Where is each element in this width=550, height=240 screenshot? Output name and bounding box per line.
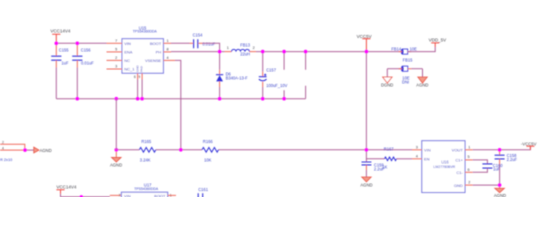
- pin 2 GND: [465, 184, 473, 186]
- svg-text:ENA: ENA: [124, 50, 133, 55]
- svg-text:EN: EN: [424, 157, 430, 162]
- svg-text:4: 4: [2, 147, 4, 151]
- ferrite bead FB14 10E: [391, 46, 417, 54]
- svg-text:3: 3: [416, 145, 418, 149]
- svg-text:6: 6: [134, 75, 136, 79]
- svg-text:2: 2: [115, 56, 117, 60]
- svg-text:C157: C157: [266, 68, 277, 73]
- svg-text:3: 3: [115, 65, 117, 69]
- svg-text:LM27760BVR: LM27760BVR: [433, 165, 455, 169]
- svg-text:1: 1: [227, 46, 229, 50]
- svg-text:7: 7: [115, 39, 117, 43]
- power VCC5V: [357, 34, 372, 52]
- svg-text:VCC14V4: VCC14V4: [50, 29, 71, 34]
- ground flag AGND left: [25, 147, 52, 153]
- resistor R166 10K: [202, 139, 219, 163]
- svg-text:R166: R166: [203, 139, 214, 144]
- pin 5 ENA: [107, 51, 123, 53]
- svg-text:2.2uF: 2.2uF: [507, 157, 518, 162]
- svg-text:5: 5: [468, 155, 470, 159]
- wire output rail: [256, 51, 401, 53]
- svg-text:1uF: 1uF: [61, 61, 69, 66]
- svg-text:2.2uF: 2.2uF: [374, 166, 385, 171]
- op IC U15 TPS54360DDA: [107, 25, 176, 98]
- svg-text:C154: C154: [193, 33, 204, 38]
- svg-text:DGND: DGND: [381, 83, 393, 88]
- capacitor C154: [190, 33, 216, 49]
- svg-text:10E: 10E: [410, 46, 418, 51]
- svg-text:PAD: PAD: [140, 65, 144, 72]
- wire 5V down branch: [365, 52, 367, 150]
- svg-text:9: 9: [138, 75, 140, 79]
- pin 8 PH: [163, 51, 171, 53]
- svg-text:C156: C156: [81, 47, 92, 52]
- pin 7 VIN: [107, 42, 123, 44]
- wire VIN top: [56, 42, 106, 44]
- pin 2 NC: [107, 59, 123, 61]
- wire divider row: [116, 149, 412, 151]
- svg-text:VCC14V4: VCC14V4: [56, 185, 77, 190]
- svg-text:3.24K: 3.24K: [140, 158, 151, 163]
- svg-text:2: 2: [253, 46, 255, 50]
- stub column (DNI cap): [283, 52, 285, 99]
- inductor FB13 22uH: [225, 42, 257, 56]
- pin 3 NC_1: [107, 68, 123, 70]
- svg-text:10K: 10K: [204, 158, 212, 163]
- pin 1 BOOT: [163, 42, 171, 44]
- svg-text:1: 1: [468, 145, 470, 149]
- svg-text:1: 1: [167, 39, 169, 43]
- power VDD_5V: [429, 38, 447, 48]
- pin 5 C1+: [465, 159, 473, 161]
- IC U16 LM2776DBVR: [412, 141, 473, 193]
- wire GND U16: [473, 184, 500, 186]
- stub column (DNI cap): [305, 52, 307, 98]
- svg-text:VDD_5V: VDD_5V: [429, 38, 447, 43]
- power VCC14V4 bottom: [56, 185, 77, 197]
- svg-text:FB13: FB13: [240, 42, 251, 47]
- svg-text:GND: GND: [454, 183, 463, 188]
- capacitor C156: [72, 43, 94, 98]
- resistor pack R 2x10 (edge): [0, 141, 25, 163]
- wire PH: [171, 51, 225, 53]
- svg-text:TPS54360DDA: TPS54360DDA: [133, 30, 158, 34]
- ground AGND: [416, 69, 428, 88]
- pin 6 GND pin 9 PAD: [138, 73, 143, 79]
- svg-text:8: 8: [167, 47, 169, 51]
- svg-text:VSENSE: VSENSE: [145, 58, 162, 63]
- wire FB14 to VDD_5V: [408, 47, 436, 52]
- ground AGND under U16: [494, 185, 506, 198]
- svg-text:AGND: AGND: [360, 182, 372, 187]
- svg-text:R167: R167: [384, 147, 395, 152]
- wire VSENSE down: [175, 60, 181, 149]
- svg-text:AGND: AGND: [110, 163, 122, 168]
- svg-text:DNI: DNI: [402, 80, 409, 85]
- power VCC14V4: [50, 29, 71, 44]
- svg-text:AGND: AGND: [40, 148, 52, 153]
- wire VOUT rail: [473, 147, 531, 150]
- IC U17 TPS54360DDA (partial): [119, 182, 177, 202]
- capacitor C158 2.2uF: [495, 150, 518, 185]
- svg-text:AGND: AGND: [416, 83, 428, 88]
- svg-text:NC_1: NC_1: [124, 67, 135, 72]
- svg-text:BOOT: BOOT: [154, 194, 166, 197]
- svg-text:VIN: VIN: [124, 194, 131, 197]
- capacitor C160 1uF: [473, 160, 504, 172]
- wire C154 to PH node: [203, 43, 220, 51]
- svg-text:VCC5V: VCC5V: [357, 34, 372, 39]
- svg-text:C155: C155: [59, 47, 70, 52]
- wire AGND divider vertical: [115, 99, 117, 150]
- svg-text:BOOT: BOOT: [150, 41, 162, 46]
- resistor R165 3.24K: [139, 139, 156, 163]
- svg-text:4: 4: [416, 154, 418, 158]
- svg-text:NC: NC: [124, 58, 130, 63]
- svg-text:TPS54360DDA: TPS54360DDA: [134, 187, 159, 191]
- svg-text:4: 4: [167, 56, 169, 60]
- svg-text:PH: PH: [156, 50, 162, 55]
- svg-text:FB14: FB14: [391, 46, 402, 51]
- svg-text:2: 2: [468, 181, 470, 185]
- svg-text:22uH: 22uH: [240, 52, 250, 57]
- capacitor C157 100uF_10V: [259, 52, 288, 99]
- svg-text:AGND: AGND: [494, 193, 506, 197]
- ferrite bead FB15 10E DNI: [387, 57, 422, 84]
- svg-text:7: 7: [119, 194, 121, 198]
- ground AGND divider: [110, 150, 122, 168]
- power -VCC5V: [521, 141, 537, 149]
- svg-text:VOUT: VOUT: [452, 148, 464, 153]
- resistor R167 1K: [382, 147, 412, 170]
- capacitor C155: [51, 43, 69, 98]
- svg-text:R 2x10: R 2x10: [0, 157, 13, 162]
- svg-text:B340A-13-F: B340A-13-F: [226, 75, 249, 80]
- diode D6 B340A-13-F: [216, 52, 248, 99]
- wire bottom VIN: [61, 196, 110, 198]
- capacitor C161 (partial): [198, 187, 209, 198]
- svg-text:0.01uF: 0.01uF: [202, 42, 215, 47]
- ground AGND under C159: [360, 177, 372, 187]
- svg-text:C161: C161: [198, 187, 209, 192]
- pin 3 VIN: [412, 149, 422, 151]
- svg-text:100uF_10V: 100uF_10V: [266, 83, 287, 88]
- svg-text:VIN: VIN: [124, 41, 131, 46]
- svg-text:0.01uF: 0.01uF: [81, 61, 94, 66]
- pin 1 VOUT: [465, 149, 473, 151]
- svg-text:C1-: C1-: [456, 170, 463, 175]
- svg-text:2: 2: [2, 141, 4, 145]
- pin 6 C1-: [465, 171, 473, 173]
- svg-text:FB15: FB15: [403, 57, 414, 62]
- capacitor C159 2.2uF: [362, 159, 385, 177]
- ground DGND: [381, 69, 393, 88]
- svg-text:C1+: C1+: [455, 158, 463, 163]
- pin 4 EN: [412, 158, 422, 160]
- svg-text:VIN: VIN: [424, 148, 431, 153]
- wire BOOT to C154: [171, 42, 190, 44]
- svg-text:-VCC5V: -VCC5V: [521, 141, 537, 146]
- ground rail: [56, 98, 305, 99]
- svg-text:1uF: 1uF: [493, 167, 501, 172]
- pin 4 VSENSE: [163, 59, 175, 61]
- svg-text:U16: U16: [441, 160, 449, 165]
- svg-text:6: 6: [468, 168, 470, 172]
- svg-text:R165: R165: [141, 139, 152, 144]
- svg-text:5: 5: [115, 47, 117, 51]
- wire EN branch: [366, 150, 384, 159]
